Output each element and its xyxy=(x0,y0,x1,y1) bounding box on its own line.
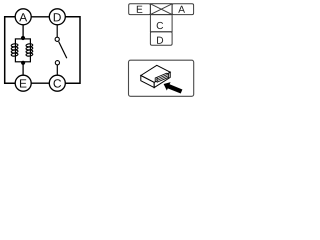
battery block left face xyxy=(141,76,154,88)
cell C xyxy=(150,15,172,32)
wire D down to switch xyxy=(56,25,58,38)
node junction top xyxy=(21,36,25,40)
X diagonal 2 xyxy=(151,4,172,15)
cell X xyxy=(150,4,172,15)
battery block right face xyxy=(154,72,170,87)
connector grille xyxy=(156,75,168,81)
cell E xyxy=(129,4,151,15)
switch contact bottom xyxy=(55,61,59,65)
battery block top face xyxy=(141,65,170,82)
wire right edge of loop xyxy=(65,17,80,83)
X diagonal 1 xyxy=(151,4,172,15)
icon box xyxy=(129,60,194,96)
wire C to E xyxy=(31,82,49,84)
connector plug body xyxy=(155,73,168,82)
wire left edge of loop xyxy=(5,17,16,83)
answer table xyxy=(129,4,194,46)
cursor arrow xyxy=(164,82,183,93)
table letter C xyxy=(157,22,163,29)
resistor coil left xyxy=(11,43,18,56)
connector left end-face crease xyxy=(156,77,158,81)
wire A down to node xyxy=(22,25,24,37)
meter E xyxy=(15,75,31,91)
resistor coil right xyxy=(26,43,33,56)
cell A xyxy=(172,4,194,15)
switch contact top xyxy=(55,37,59,41)
wire node to E xyxy=(22,63,24,75)
meter D xyxy=(49,9,65,25)
wire switch to C xyxy=(56,65,58,75)
meter A xyxy=(15,9,31,25)
node junction bottom xyxy=(21,61,25,65)
wire A to D xyxy=(31,16,49,18)
table letter A xyxy=(178,6,185,13)
cell D xyxy=(150,32,172,46)
meter C xyxy=(49,75,65,91)
wire parallel branch frame xyxy=(15,39,30,62)
switch blade xyxy=(59,42,67,59)
table letter D xyxy=(157,37,163,44)
table letter E xyxy=(137,6,143,13)
